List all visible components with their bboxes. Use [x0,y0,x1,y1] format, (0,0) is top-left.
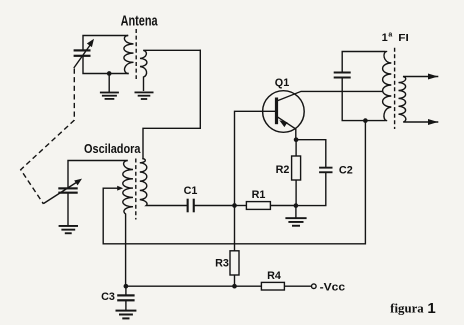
svg-text:R3: R3 [215,258,229,270]
svg-text:Antena: Antena [121,13,159,29]
svg-text:1: 1 [382,32,388,44]
svg-text:R2: R2 [276,164,290,176]
svg-text:FI: FI [398,32,409,44]
svg-text:R1: R1 [252,189,266,201]
svg-text:1: 1 [427,300,435,317]
svg-text:-Vcc: -Vcc [320,281,346,293]
svg-text:C2: C2 [339,165,353,177]
svg-text:figura: figura [390,302,424,316]
svg-text:a: a [388,31,392,38]
svg-text:R4: R4 [267,270,281,282]
svg-text:Osciladora: Osciladora [84,142,141,156]
svg-text:C3: C3 [101,291,115,303]
svg-text:Q1: Q1 [275,77,289,89]
svg-text:C1: C1 [184,185,198,197]
